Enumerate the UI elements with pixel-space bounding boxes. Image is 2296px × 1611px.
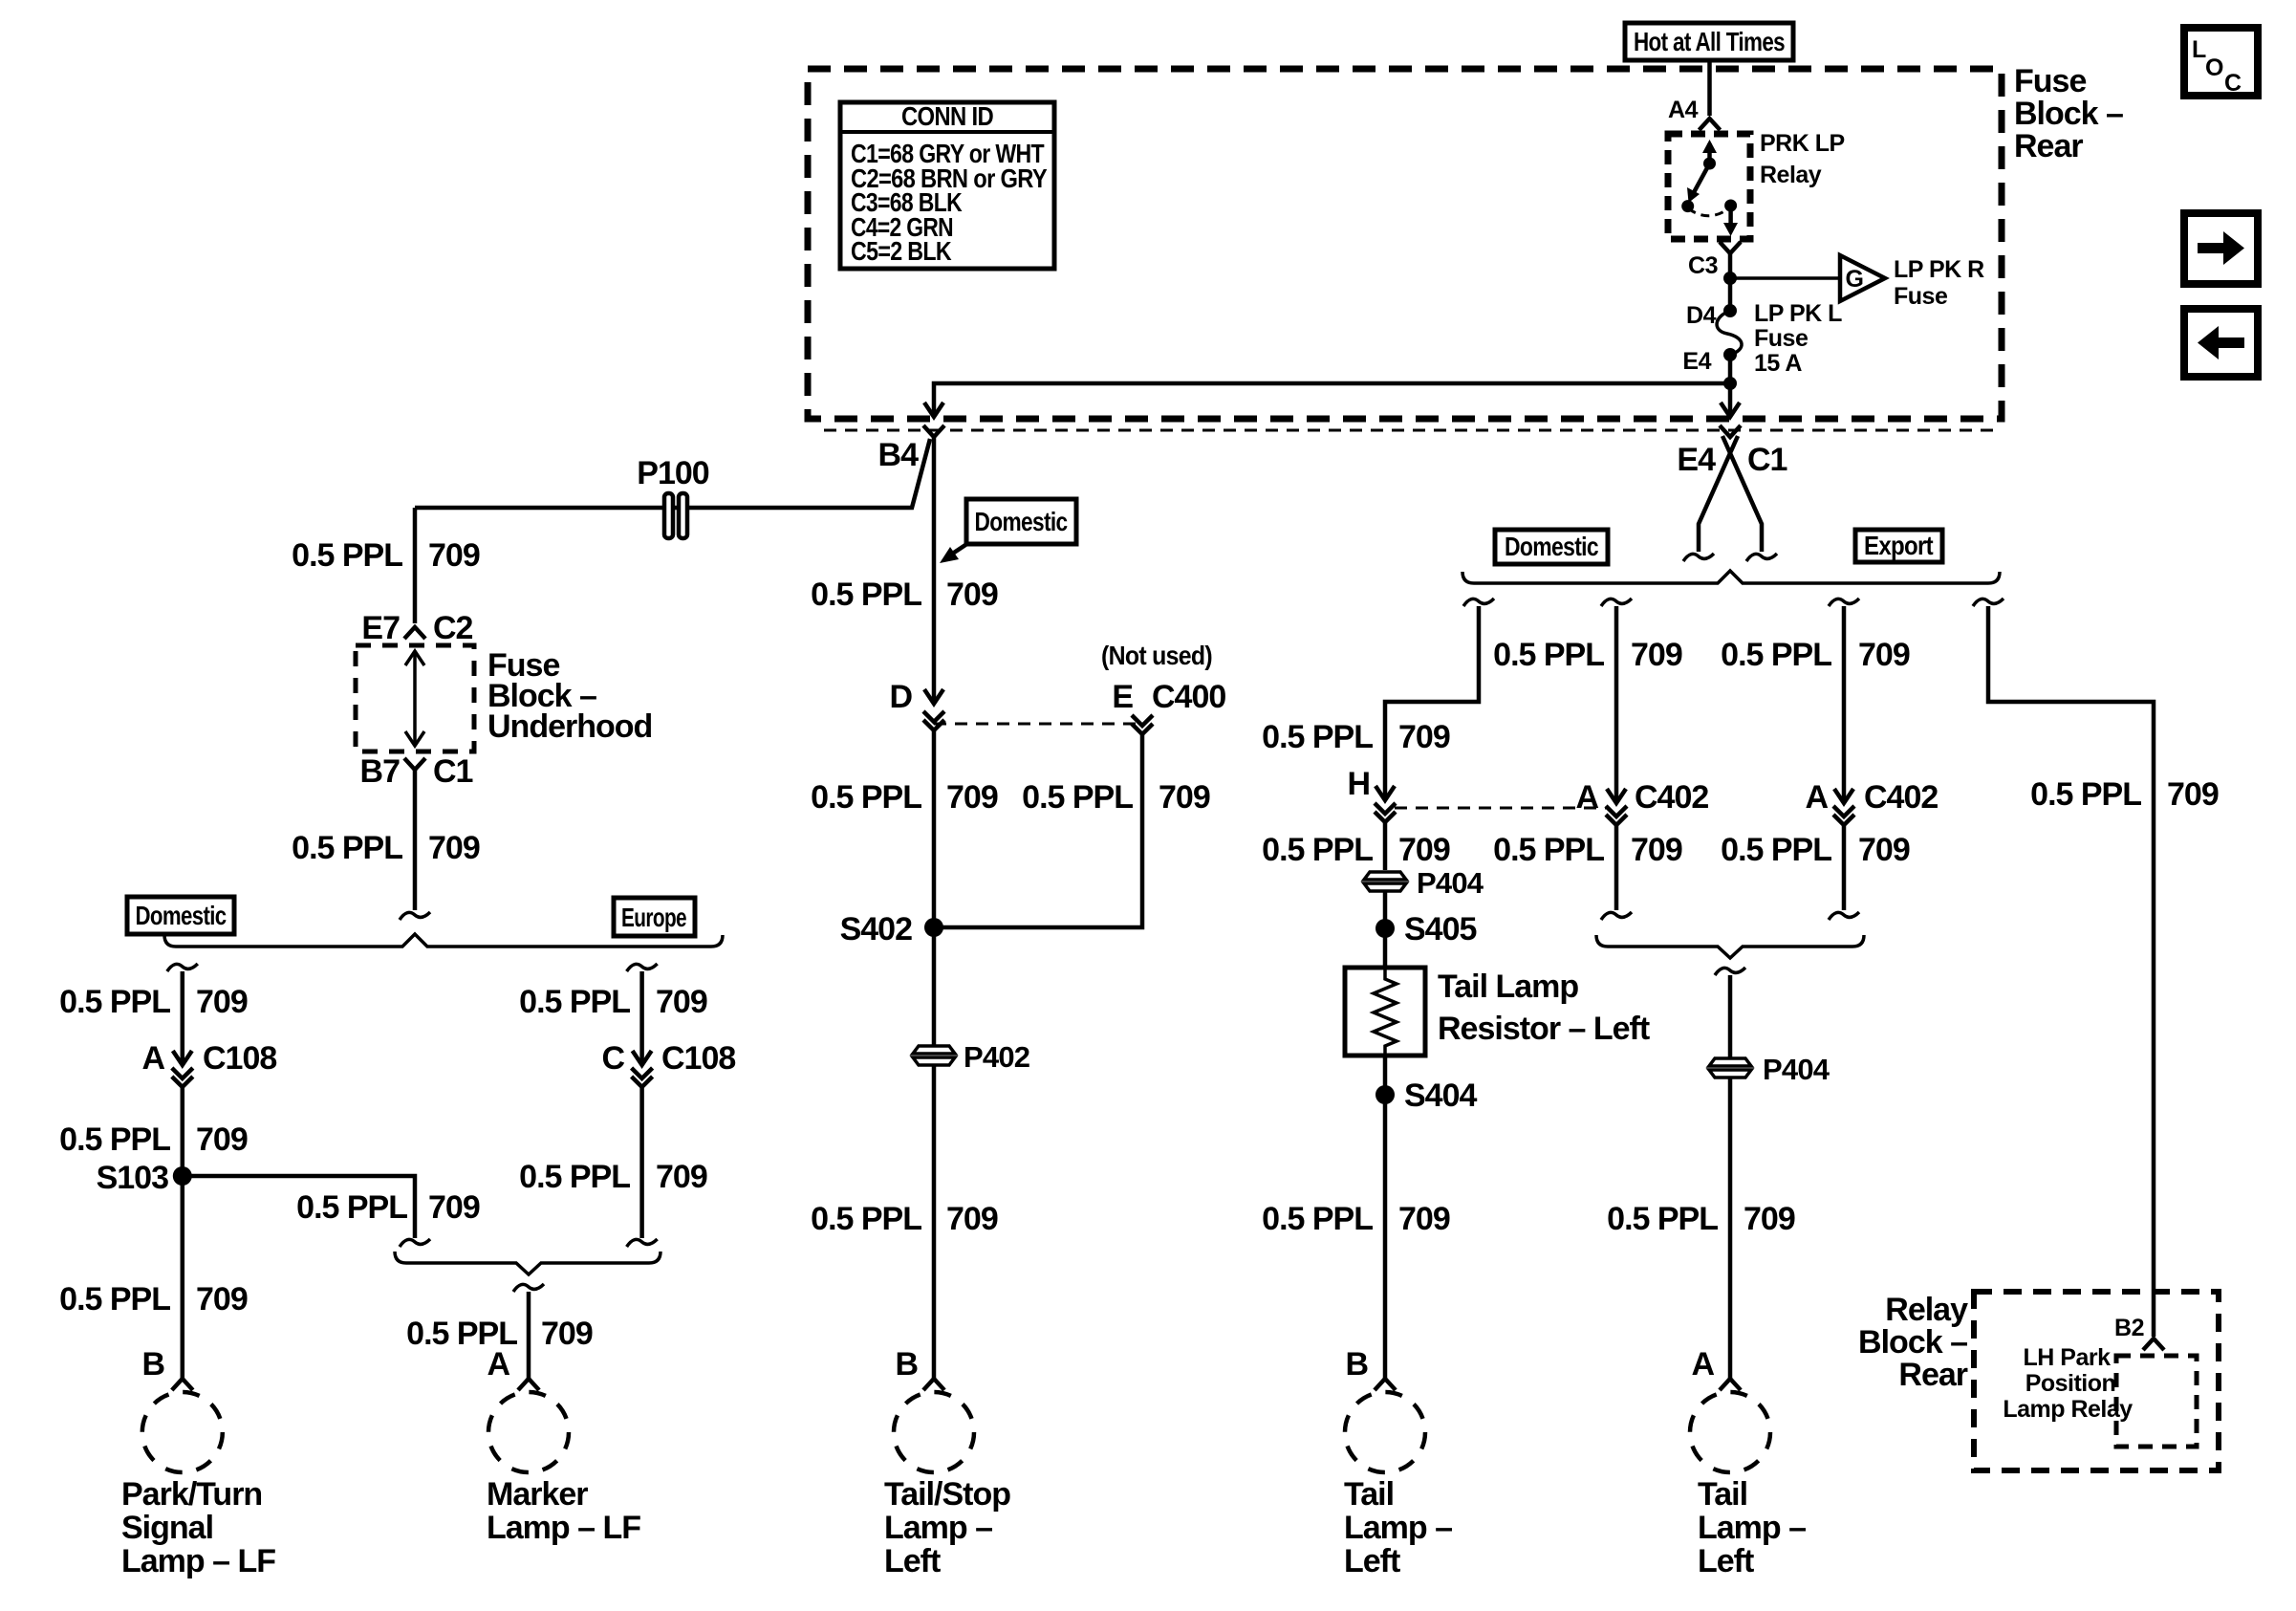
- svg-text:C: C: [2224, 70, 2242, 97]
- svg-text:Left: Left: [1698, 1543, 1754, 1579]
- svg-text:709: 709: [1398, 1201, 1450, 1237]
- connector chevron at A4: [1700, 119, 1721, 130]
- svg-text:C: C: [601, 1040, 624, 1077]
- svg-text:0.5 PPL: 0.5 PPL: [1262, 832, 1373, 868]
- wire labels 0.5 PPL 709 below C402 row: [1262, 832, 1910, 868]
- svg-text:D: D: [889, 679, 912, 715]
- svg-text:L: L: [2192, 36, 2206, 63]
- continuation hook left: [1683, 554, 1714, 561]
- wire col3 below C402: [1842, 824, 1847, 910]
- svg-text:709: 709: [1858, 637, 1910, 673]
- connector C402 chevrons at H: [1375, 803, 1396, 822]
- svg-text:Tail/Stop: Tail/Stop: [884, 1476, 1010, 1513]
- svg-text:709: 709: [541, 1316, 593, 1352]
- svg-text:709: 709: [946, 779, 998, 816]
- wire label 0.5 PPL 709 below B7: [292, 830, 480, 866]
- svg-text:Europe: Europe: [621, 903, 686, 932]
- branch hook col3: [1829, 599, 1859, 606]
- svg-text:S402: S402: [840, 911, 912, 947]
- svg-text:S103: S103: [97, 1160, 168, 1196]
- LH Park Position Lamp Relay label: [2003, 1344, 2133, 1423]
- wire label 0.5 PPL 709: [811, 1201, 998, 1237]
- Tail/Stop Lamp dashed circle: [894, 1392, 974, 1472]
- wire resistor to S404: [1383, 1056, 1388, 1379]
- inline connector P404 left: [1364, 872, 1406, 891]
- connector chevron at Marker lamp: [518, 1379, 539, 1390]
- svg-text:709: 709: [1858, 832, 1910, 868]
- wire col4 over to relay block: [1988, 606, 2154, 1337]
- wire label 0.5 PPL 709 above H: [1262, 719, 1450, 755]
- svg-text:0.5 PPL: 0.5 PPL: [1022, 779, 1133, 816]
- wire col2 down to A C402: [1614, 606, 1619, 799]
- node E4: [1723, 348, 1737, 361]
- svg-text:0.5 PPL: 0.5 PPL: [519, 1159, 630, 1195]
- Domestic option box: [1495, 530, 1608, 564]
- svg-text:709: 709: [1631, 832, 1682, 868]
- svg-text:0.5 PPL: 0.5 PPL: [59, 984, 170, 1020]
- svg-text:O: O: [2205, 54, 2223, 81]
- svg-text:C402: C402: [1864, 779, 1938, 816]
- svg-text:0.5 PPL: 0.5 PPL: [1607, 1201, 1718, 1237]
- svg-text:A: A: [141, 1040, 164, 1077]
- branch hook col1: [1463, 599, 1494, 606]
- connector chevron at Tail/Stop lamp: [923, 1379, 944, 1390]
- svg-text:709: 709: [428, 1189, 480, 1226]
- svg-text:0.5 PPL: 0.5 PPL: [1721, 832, 1831, 868]
- wire H down to P404: [1383, 822, 1388, 870]
- svg-text:Resistor – Left: Resistor – Left: [1438, 1011, 1650, 1047]
- svg-text:709: 709: [428, 830, 480, 866]
- svg-text:Lamp –: Lamp –: [884, 1510, 992, 1546]
- arrow at pin A C108: [173, 1051, 192, 1065]
- CONN ID table: [840, 101, 1054, 269]
- arrow at pin D: [924, 689, 943, 704]
- svg-text:C3: C3: [1688, 252, 1718, 279]
- arrow at pin C C108: [633, 1051, 652, 1065]
- connector C400 dashed line: [934, 723, 1142, 726]
- wire brace to P404 right: [1728, 975, 1733, 1057]
- svg-text:Tail: Tail: [1344, 1476, 1394, 1513]
- right arrow nav box: [2184, 213, 2258, 284]
- continuation hook above split brace: [400, 912, 430, 920]
- wire label 0.5 PPL 709 domestic top: [59, 984, 248, 1020]
- svg-text:Domestic: Domestic: [136, 901, 227, 930]
- svg-text:709: 709: [196, 1121, 248, 1158]
- connector chevron at Tail lamp: [1375, 1379, 1396, 1390]
- svg-text:E4: E4: [1682, 348, 1711, 375]
- Fuse Block - Rear dashed enclosure: [808, 69, 2002, 419]
- svg-text:Hot at All Times: Hot at All Times: [1634, 27, 1785, 56]
- wire col1 to H: [1385, 606, 1479, 796]
- wire marker feed down: [527, 1292, 531, 1379]
- wire label 0.5 PPL 709 col4: [2030, 776, 2219, 813]
- svg-text:709: 709: [656, 984, 707, 1020]
- svg-text:0.5 PPL: 0.5 PPL: [2030, 776, 2141, 813]
- svg-text:Left: Left: [884, 1543, 941, 1579]
- connector chevron E7/C2: [404, 627, 425, 639]
- svg-text:709: 709: [428, 537, 480, 574]
- svg-text:D4: D4: [1686, 302, 1717, 329]
- wire P404 to S405: [1383, 892, 1388, 968]
- wire P404 down to lamp: [1728, 1078, 1733, 1379]
- Tail/Stop Lamp - Left label: [884, 1476, 1010, 1579]
- svg-text:E: E: [1112, 679, 1133, 715]
- splice S404: [1375, 1085, 1395, 1104]
- connector C402 chevrons first: [1606, 806, 1627, 825]
- wire label 0.5 PPL 709 europe lower: [519, 1159, 707, 1195]
- continuation hook col2 bottom: [1601, 912, 1632, 920]
- Marker Lamp - LF label: [487, 1476, 640, 1546]
- wire label 0.5 PPL 709 below B4: [811, 577, 998, 613]
- LH Park Position Lamp Relay inner dashed box: [2116, 1356, 2197, 1447]
- splice S103: [173, 1166, 192, 1186]
- wire B7 down to split brace: [413, 770, 418, 910]
- wire B4 down to D: [932, 437, 937, 701]
- Fuse Block - Rear label: [2014, 63, 2123, 164]
- svg-text:709: 709: [196, 1281, 248, 1317]
- connector chevron B7/C1: [404, 758, 425, 770]
- svg-text:709: 709: [946, 1201, 998, 1237]
- connector C1 mating face dashed line: [824, 429, 2002, 432]
- svg-text:B: B: [1345, 1346, 1368, 1382]
- inline connector P404 right: [1709, 1058, 1751, 1078]
- svg-text:Lamp –: Lamp –: [1698, 1510, 1806, 1546]
- svg-text:709: 709: [2167, 776, 2219, 813]
- relay switch arm with arrowhead: [1692, 163, 1710, 196]
- wire C3 to D4: [1728, 253, 1733, 311]
- svg-text:0.5 PPL: 0.5 PPL: [811, 577, 921, 613]
- Marker lamp dashed circle: [488, 1392, 569, 1472]
- wire labels 0.5 PPL 709 above S402: [811, 779, 1210, 816]
- svg-text:Domestic: Domestic: [1505, 532, 1598, 561]
- svg-text:G: G: [1846, 266, 1864, 293]
- wire label 0.5 PPL 709 resistor column: [1262, 1201, 1450, 1237]
- Fuse Block - Underhood label: [487, 647, 652, 745]
- svg-text:Rear: Rear: [1898, 1357, 1967, 1393]
- node C3 junction: [1723, 272, 1737, 285]
- svg-text:709: 709: [1398, 719, 1450, 755]
- connector C108 chevrons europe: [632, 1068, 653, 1087]
- relay dashed throw arc: [1688, 207, 1730, 216]
- svg-text:Block –: Block –: [1858, 1324, 1967, 1361]
- wire C108 down to lamp B: [181, 1087, 185, 1379]
- long feed wire to left branch: [934, 383, 1730, 413]
- LP PK R Fuse triangle G: [1840, 255, 1885, 301]
- svg-text:LH Park: LH Park: [2024, 1344, 2112, 1371]
- svg-text:B4: B4: [878, 437, 920, 473]
- wire label 0.5 PPL 709 above S103: [59, 1121, 248, 1158]
- wire P100 run down to E7: [413, 508, 418, 623]
- svg-text:0.5 PPL: 0.5 PPL: [1493, 637, 1604, 673]
- wire col2 below C402: [1614, 824, 1619, 910]
- Tail Lamp 2 - Left label: [1698, 1476, 1806, 1579]
- connector C402 chevrons second: [1833, 806, 1854, 825]
- splice S402: [924, 918, 943, 937]
- svg-text:0.5 PPL: 0.5 PPL: [1262, 719, 1373, 755]
- svg-text:Domestic: Domestic: [975, 507, 1068, 536]
- svg-text:Tail: Tail: [1698, 1476, 1747, 1513]
- svg-text:0.5 PPL: 0.5 PPL: [292, 830, 402, 866]
- svg-text:0.5 PPL: 0.5 PPL: [811, 1201, 921, 1237]
- wire Domestic col down to A C108: [181, 971, 185, 1062]
- arrow into C1 connector right: [1721, 403, 1740, 417]
- svg-text:0.5 PPL: 0.5 PPL: [1262, 1201, 1373, 1237]
- node D4: [1723, 304, 1737, 317]
- relay switch common pin with up arrow: [1707, 143, 1712, 163]
- connector chevron at B2: [2143, 1339, 2164, 1350]
- svg-text:709: 709: [1744, 1201, 1795, 1237]
- connector chevron at Park/Turn lamp: [172, 1379, 193, 1390]
- svg-text:Export: Export: [1864, 531, 1933, 560]
- continuation hook right: [1746, 554, 1777, 561]
- wire D down to S402: [932, 730, 937, 1045]
- svg-text:Relay: Relay: [1760, 162, 1822, 188]
- connector C400 chevrons at D: [923, 711, 944, 730]
- connector E4/C1 chevron: [1720, 425, 1741, 437]
- Relay Block - Rear dashed enclosure: [1974, 1292, 2219, 1470]
- branch hook Europe column: [627, 964, 658, 971]
- svg-text:15 A: 15 A: [1754, 350, 1802, 377]
- svg-text:S404: S404: [1404, 1078, 1477, 1114]
- connector chevron at Tail lamp 2: [1720, 1379, 1741, 1390]
- svg-text:LP PK R: LP PK R: [1894, 256, 1984, 283]
- svg-text:E7: E7: [361, 610, 400, 646]
- crossed wires below E4/C1: [1722, 436, 1762, 552]
- arrow at pin A first C402: [1607, 789, 1626, 803]
- branch wire from S103 to merge brace: [183, 1176, 415, 1238]
- arrow at pin A second C402: [1834, 789, 1853, 803]
- merge brace to single tail feed: [1596, 935, 1864, 958]
- svg-text:P100: P100: [637, 455, 708, 491]
- left arrow nav box: [2184, 309, 2258, 377]
- svg-text:A4: A4: [1668, 97, 1699, 123]
- svg-text:C400: C400: [1152, 679, 1225, 715]
- Park/Turn lamp dashed circle: [142, 1392, 223, 1472]
- wire label 0.5 PPL 709 branch: [296, 1189, 480, 1226]
- svg-text:0.5 PPL: 0.5 PPL: [296, 1189, 407, 1226]
- wire E down and over to S402: [941, 734, 1142, 927]
- svg-text:Relay: Relay: [1885, 1292, 1968, 1328]
- arrow into C1 connector left: [924, 403, 943, 417]
- svg-text:0.5 PPL: 0.5 PPL: [59, 1281, 170, 1317]
- svg-text:Block –: Block –: [2014, 96, 2123, 132]
- LOC box: [2184, 28, 2258, 97]
- svg-text:Marker: Marker: [487, 1476, 588, 1513]
- svg-text:Tail Lamp: Tail Lamp: [1438, 969, 1578, 1005]
- wire to LP PK R fuse feed: [1730, 276, 1840, 280]
- Tail Lamp 2 dashed circle: [1690, 1392, 1770, 1472]
- svg-text:C5=2 BLK: C5=2 BLK: [851, 236, 951, 266]
- svg-text:0.5 PPL: 0.5 PPL: [1493, 832, 1604, 868]
- continuation hook europe bottom: [627, 1239, 658, 1247]
- svg-text:Rear: Rear: [2014, 128, 2083, 164]
- svg-text:A: A: [487, 1346, 509, 1382]
- svg-text:C1: C1: [1747, 442, 1787, 478]
- merge brace to marker lamp: [395, 1252, 661, 1274]
- svg-text:Signal: Signal: [121, 1510, 213, 1546]
- Export option box: [1855, 530, 1942, 562]
- svg-text:709: 709: [1398, 832, 1450, 868]
- svg-text:Park/Turn: Park/Turn: [121, 1476, 262, 1513]
- svg-text:B2: B2: [2114, 1315, 2144, 1341]
- svg-text:Lamp Relay: Lamp Relay: [2003, 1396, 2133, 1423]
- svg-text:B: B: [141, 1346, 164, 1382]
- splice S405: [1375, 919, 1395, 938]
- wire label 0.5 PPL 709 europe top: [519, 984, 707, 1020]
- svg-text:C108: C108: [203, 1040, 276, 1077]
- svg-text:S405: S405: [1404, 911, 1476, 947]
- branch hook Domestic column: [167, 964, 198, 971]
- connector C400 chevrons at E: [1132, 715, 1153, 734]
- split brace Domestic/Europe: [164, 934, 723, 947]
- wire labels 0.5 PPL 709 col2 col3: [1493, 637, 1910, 673]
- svg-text:H: H: [1347, 766, 1370, 802]
- Hot at All Times box: [1625, 23, 1793, 60]
- svg-text:P402: P402: [964, 1040, 1029, 1074]
- svg-text:B: B: [895, 1346, 918, 1382]
- pass-through arrow inside underhood block: [413, 654, 417, 743]
- connector C402 dashed line: [1395, 807, 1608, 810]
- svg-text:B7: B7: [360, 753, 401, 790]
- svg-text:Lamp – LF: Lamp – LF: [487, 1510, 640, 1546]
- Europe option box: [614, 898, 695, 936]
- Park/Turn Signal Lamp - LF label: [121, 1476, 275, 1579]
- Tail Lamp - Left label: [1344, 1476, 1452, 1579]
- svg-text:Fuse: Fuse: [2014, 63, 2086, 99]
- Domestic option box left: [127, 897, 234, 934]
- PRK LP Relay label: [1760, 130, 1845, 188]
- svg-text:C2: C2: [433, 610, 473, 646]
- connector chevron at C3: [1720, 242, 1741, 253]
- svg-text:A: A: [1805, 779, 1828, 816]
- svg-text:C108: C108: [661, 1040, 735, 1077]
- svg-text:709: 709: [1631, 637, 1682, 673]
- continuation hook marker feed: [513, 1284, 544, 1292]
- svg-text:P404: P404: [1417, 866, 1484, 900]
- Tail Lamp Resistor - Left label: [1438, 969, 1650, 1047]
- wire C108 europe down to merge brace: [639, 1087, 644, 1238]
- svg-text:709: 709: [196, 984, 248, 1020]
- svg-text:709: 709: [946, 577, 998, 613]
- svg-text:A: A: [1575, 779, 1598, 816]
- inline connector P402: [913, 1046, 955, 1065]
- resistor zigzag: [1374, 968, 1397, 1056]
- svg-text:C1: C1: [433, 753, 473, 790]
- svg-text:0.5 PPL: 0.5 PPL: [1721, 637, 1831, 673]
- svg-text:Underhood: Underhood: [487, 708, 652, 745]
- svg-text:0.5 PPL: 0.5 PPL: [292, 537, 402, 574]
- Tail Lamp dashed circle: [1345, 1392, 1425, 1472]
- wire slant from B4 to P100 run: [415, 439, 930, 508]
- svg-text:(Not used): (Not used): [1101, 641, 1212, 670]
- svg-text:709: 709: [656, 1159, 707, 1195]
- svg-text:P404: P404: [1763, 1053, 1830, 1086]
- svg-text:709: 709: [1159, 779, 1210, 816]
- svg-text:0.5 PPL: 0.5 PPL: [811, 779, 921, 816]
- arrow at pin H: [1375, 786, 1395, 800]
- LP PK L Fuse 15 A label: [1754, 300, 1842, 377]
- wire P402 down to lamp: [932, 1066, 937, 1379]
- continuation hook branch bottom: [400, 1239, 430, 1247]
- node feed junction: [1723, 377, 1737, 390]
- LP PK R Fuse label: [1894, 256, 1984, 310]
- wire from Hot at All Times down to pin A4: [1707, 60, 1712, 116]
- wire label 0.5 PPL 709 above E7: [292, 537, 480, 574]
- svg-text:CONN ID: CONN ID: [901, 101, 993, 131]
- svg-text:0.5 PPL: 0.5 PPL: [59, 1121, 170, 1158]
- branch hook col2: [1601, 599, 1632, 606]
- svg-text:Left: Left: [1344, 1543, 1400, 1579]
- svg-text:LP PK L: LP PK L: [1754, 300, 1842, 327]
- svg-text:PRK LP: PRK LP: [1760, 130, 1845, 157]
- Tail Lamp Resistor box: [1345, 968, 1425, 1056]
- connector C108 chevrons left: [172, 1068, 193, 1087]
- continuation hook col3 bottom: [1829, 912, 1859, 920]
- relay output pin with down arrow: [1724, 200, 1737, 212]
- Fuse Block - Underhood dashed box: [356, 645, 474, 751]
- wire label 0.5 PPL 709 marker: [406, 1316, 593, 1352]
- connector B4 chevron: [923, 425, 944, 437]
- svg-text:Position: Position: [2025, 1370, 2116, 1397]
- svg-text:Fuse: Fuse: [1894, 283, 1948, 310]
- inline connector P100: [664, 493, 687, 538]
- wire label 0.5 PPL 709 below S103: [59, 1281, 248, 1317]
- wire Europe col down to C C108: [639, 971, 644, 1062]
- svg-text:C402: C402: [1635, 779, 1708, 816]
- Relay Block - Rear label: [1858, 1292, 1968, 1393]
- svg-text:E4: E4: [1677, 442, 1716, 478]
- svg-text:Fuse: Fuse: [1754, 325, 1809, 352]
- continuation hook tail feed: [1715, 968, 1745, 975]
- wire label 0.5 PPL 709 tail feed: [1607, 1201, 1795, 1237]
- wire col3 down to A C402: [1842, 606, 1847, 799]
- PRK LP Relay dashed box: [1668, 134, 1750, 239]
- svg-text:Lamp – LF: Lamp – LF: [121, 1543, 275, 1579]
- Domestic callout box with arrow: [940, 499, 1076, 563]
- fuse LP PK L element: [1717, 311, 1742, 355]
- branch hook col4: [1973, 599, 2004, 606]
- split brace under E4/C1: [1462, 571, 2000, 583]
- svg-text:Lamp –: Lamp –: [1344, 1510, 1452, 1546]
- wire E4 down to junction: [1728, 355, 1733, 414]
- svg-text:0.5 PPL: 0.5 PPL: [519, 984, 630, 1020]
- svg-text:A: A: [1691, 1346, 1714, 1382]
